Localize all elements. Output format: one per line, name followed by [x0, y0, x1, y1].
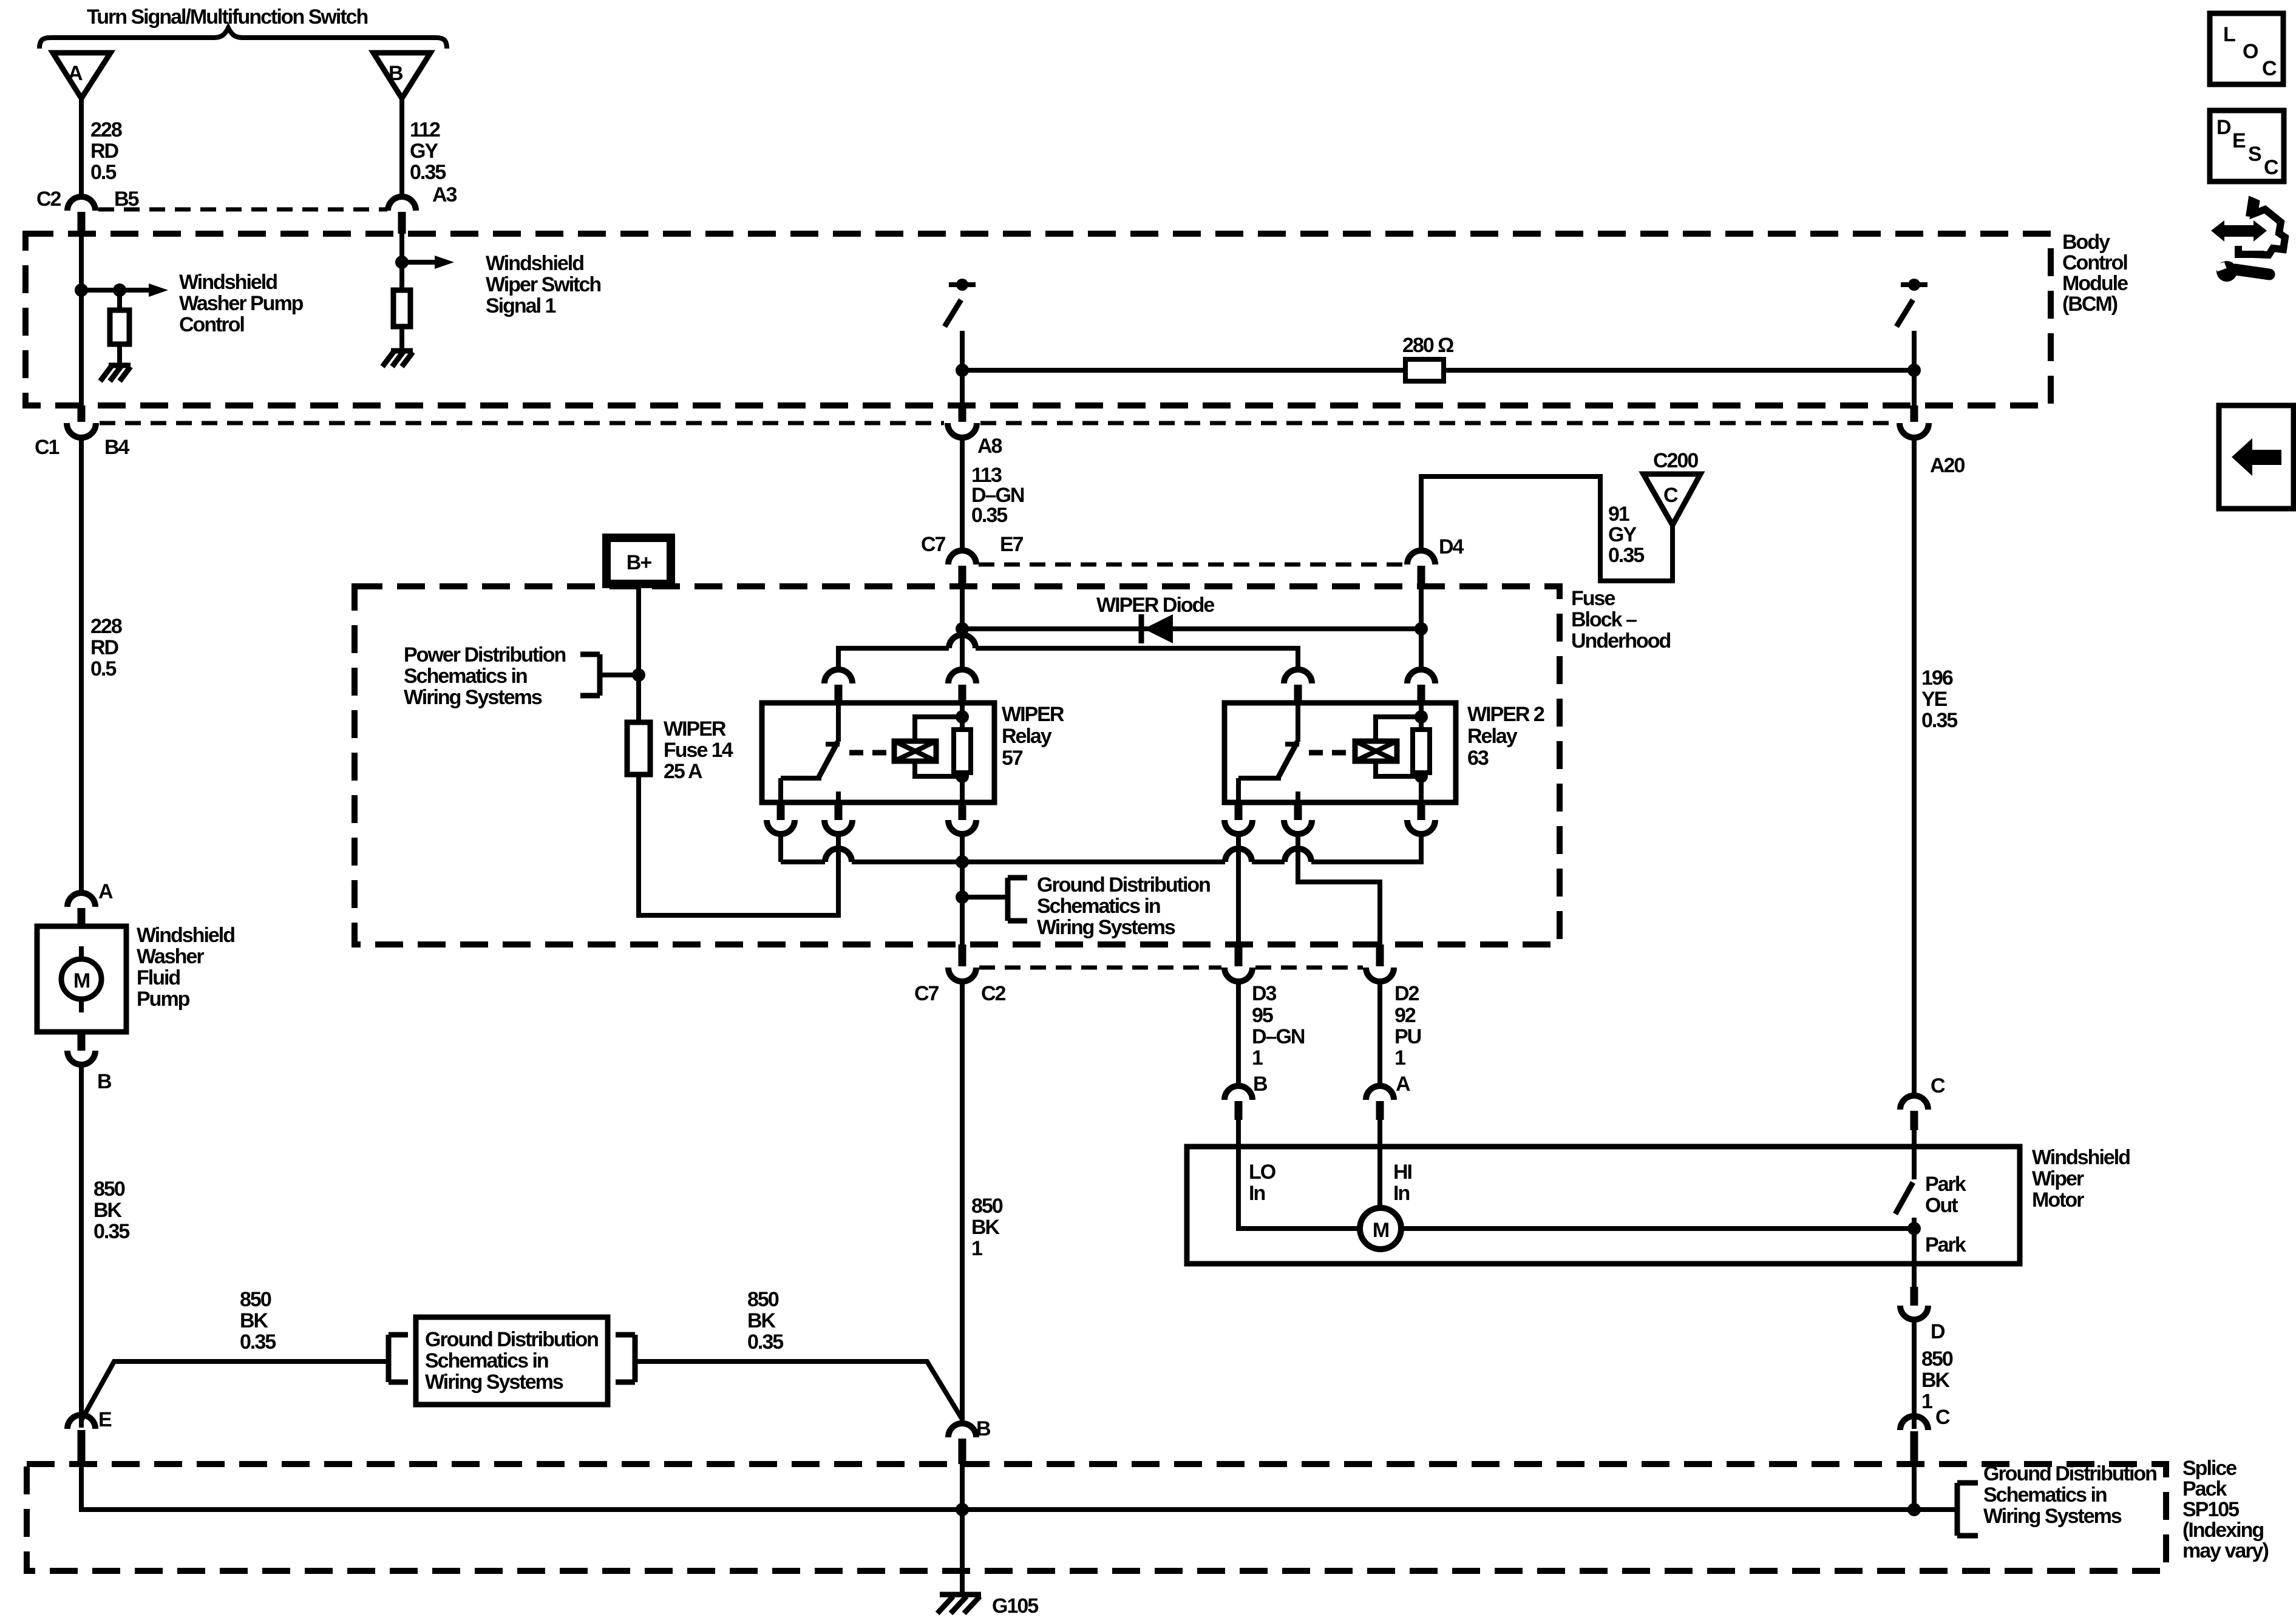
svg-text:C7: C7 — [914, 982, 939, 1005]
svg-text:(BCM): (BCM) — [2062, 293, 2118, 316]
svg-text:WIPER Diode: WIPER Diode — [1096, 594, 1214, 617]
svg-text:Windshield: Windshield — [137, 924, 234, 947]
svg-text:C: C — [1935, 1406, 1950, 1429]
svg-text:(Indexing: (Indexing — [2182, 1519, 2263, 1542]
svg-text:Ground Distribution: Ground Distribution — [1983, 1462, 2156, 1485]
svg-text:Wiper: Wiper — [2032, 1167, 2084, 1190]
svg-text:Power Distribution: Power Distribution — [404, 643, 565, 666]
svg-text:C: C — [1931, 1074, 1945, 1097]
svg-text:BK: BK — [93, 1199, 123, 1222]
svg-text:E: E — [98, 1408, 112, 1431]
svg-text:GY: GY — [410, 140, 438, 163]
svg-text:Windshield: Windshield — [179, 271, 277, 294]
svg-text:Park: Park — [1925, 1233, 1966, 1256]
svg-text:C: C — [1663, 484, 1678, 507]
svg-text:M: M — [1373, 1219, 1389, 1242]
svg-text:1: 1 — [971, 1237, 982, 1260]
svg-text:850: 850 — [93, 1178, 125, 1201]
svg-text:may vary): may vary) — [2182, 1539, 2268, 1562]
svg-text:BK: BK — [747, 1309, 776, 1332]
svg-text:Windshield: Windshield — [2032, 1146, 2130, 1169]
svg-text:RD: RD — [90, 140, 119, 163]
svg-text:D: D — [1931, 1320, 1945, 1343]
svg-text:A: A — [1396, 1073, 1410, 1096]
svg-text:SP105: SP105 — [2182, 1498, 2239, 1521]
svg-text:GY: GY — [1608, 523, 1637, 546]
svg-text:E7: E7 — [1000, 533, 1024, 556]
svg-text:Washer Pump: Washer Pump — [179, 292, 304, 315]
svg-text:95: 95 — [1252, 1004, 1273, 1027]
svg-text:Wiring Systems: Wiring Systems — [1983, 1505, 2122, 1528]
svg-text:Module: Module — [2062, 272, 2128, 295]
svg-text:0.35: 0.35 — [971, 504, 1007, 527]
svg-text:A: A — [98, 880, 113, 903]
svg-text:25 A: 25 A — [664, 760, 702, 783]
svg-text:D4: D4 — [1439, 535, 1464, 558]
svg-text:Windshield: Windshield — [486, 252, 583, 275]
svg-text:Underhood: Underhood — [1571, 629, 1671, 653]
svg-text:0.35: 0.35 — [1921, 709, 1957, 732]
svg-text:In: In — [1249, 1182, 1265, 1205]
svg-text:Relay: Relay — [1002, 725, 1052, 748]
svg-text:Wiring Systems: Wiring Systems — [1037, 916, 1175, 939]
svg-text:Park: Park — [1925, 1173, 1966, 1196]
svg-text:B4: B4 — [104, 436, 130, 459]
svg-text:BK: BK — [240, 1309, 269, 1332]
svg-text:Body: Body — [2062, 231, 2110, 254]
svg-text:B5: B5 — [114, 188, 139, 211]
svg-text:Wiring Systems: Wiring Systems — [425, 1371, 563, 1394]
svg-text:Pack: Pack — [2182, 1477, 2227, 1500]
svg-text:63: 63 — [1467, 747, 1489, 770]
svg-text:Ground Distribution: Ground Distribution — [1037, 873, 1210, 897]
svg-text:LO: LO — [1249, 1161, 1276, 1184]
svg-text:E: E — [2232, 129, 2246, 152]
svg-text:C2: C2 — [981, 982, 1006, 1005]
svg-text:PU: PU — [1394, 1025, 1421, 1048]
svg-text:S: S — [2248, 143, 2261, 166]
svg-text:M: M — [73, 969, 90, 992]
svg-text:A20: A20 — [1930, 454, 1965, 477]
svg-text:Signal 1: Signal 1 — [486, 294, 555, 317]
svg-text:Fuse: Fuse — [1571, 587, 1615, 610]
svg-text:228: 228 — [90, 615, 122, 638]
svg-text:C2: C2 — [36, 188, 61, 211]
svg-text:In: In — [1393, 1182, 1409, 1205]
svg-text:0.35: 0.35 — [93, 1220, 129, 1243]
svg-text:850: 850 — [240, 1288, 271, 1311]
svg-text:Control: Control — [2062, 251, 2127, 274]
svg-text:112: 112 — [410, 118, 440, 141]
svg-text:C200: C200 — [1653, 449, 1698, 472]
svg-text:0.5: 0.5 — [90, 657, 116, 680]
svg-text:Relay: Relay — [1467, 725, 1518, 748]
svg-text:Wiring Systems: Wiring Systems — [404, 686, 542, 709]
svg-text:57: 57 — [1002, 747, 1023, 770]
svg-text:RD: RD — [90, 636, 119, 659]
svg-text:Splice: Splice — [2182, 1457, 2237, 1480]
svg-text:Block –: Block – — [1571, 608, 1637, 631]
svg-text:Washer: Washer — [137, 945, 204, 968]
svg-text:1: 1 — [1394, 1046, 1405, 1070]
svg-text:Pump: Pump — [137, 988, 190, 1011]
svg-text:1: 1 — [1252, 1046, 1263, 1070]
svg-text:Wiper Switch: Wiper Switch — [486, 273, 600, 296]
svg-text:D: D — [2216, 116, 2231, 139]
svg-text:Motor: Motor — [2032, 1188, 2084, 1212]
svg-text:850: 850 — [971, 1195, 1003, 1218]
svg-text:WIPER 2: WIPER 2 — [1467, 703, 1544, 726]
svg-text:YE: YE — [1921, 688, 1948, 711]
svg-text:L: L — [2223, 23, 2235, 46]
svg-text:Schematics in: Schematics in — [404, 665, 527, 688]
svg-text:WIPER: WIPER — [664, 717, 726, 741]
svg-text:0.35: 0.35 — [240, 1331, 276, 1354]
svg-text:G105: G105 — [992, 1595, 1038, 1617]
svg-text:B: B — [389, 62, 403, 85]
svg-text:92: 92 — [1394, 1004, 1416, 1027]
svg-text:280 Ω: 280 Ω — [1402, 334, 1453, 357]
svg-text:C: C — [2264, 156, 2278, 179]
svg-text:C: C — [2262, 57, 2277, 80]
svg-text:HI: HI — [1393, 1161, 1412, 1184]
svg-text:A3: A3 — [432, 183, 457, 206]
svg-text:Schematics in: Schematics in — [1037, 895, 1160, 918]
svg-text:0.35: 0.35 — [1608, 544, 1644, 567]
svg-text:BK: BK — [971, 1216, 1000, 1239]
svg-text:BK: BK — [1921, 1369, 1951, 1392]
svg-text:91: 91 — [1608, 503, 1629, 526]
svg-text:850: 850 — [747, 1288, 779, 1311]
svg-text:0.5: 0.5 — [90, 161, 116, 184]
svg-text:1: 1 — [1921, 1390, 1932, 1413]
svg-text:D2: D2 — [1394, 982, 1419, 1005]
svg-text:Out: Out — [1925, 1194, 1958, 1217]
svg-text:B+: B+ — [627, 551, 652, 574]
svg-text:Schematics in: Schematics in — [1983, 1483, 2107, 1507]
svg-text:O: O — [2243, 40, 2258, 63]
svg-text:B: B — [976, 1417, 991, 1440]
svg-text:B: B — [97, 1070, 112, 1093]
svg-text:Fuse 14: Fuse 14 — [664, 739, 733, 762]
svg-text:228: 228 — [90, 118, 122, 141]
svg-text:A: A — [68, 62, 83, 85]
svg-text:C1: C1 — [35, 436, 59, 459]
svg-text:A8: A8 — [977, 435, 1002, 458]
svg-text:D–GN: D–GN — [1252, 1025, 1305, 1048]
svg-text:Schematics in: Schematics in — [425, 1349, 548, 1372]
svg-text:WIPER: WIPER — [1002, 703, 1064, 726]
svg-text:B: B — [1253, 1073, 1268, 1096]
svg-text:D3: D3 — [1252, 982, 1277, 1005]
svg-text:0.35: 0.35 — [410, 161, 446, 184]
svg-text:C7: C7 — [921, 533, 946, 556]
svg-text:Fluid: Fluid — [137, 966, 180, 989]
svg-text:196: 196 — [1921, 666, 1953, 690]
svg-text:Control: Control — [179, 313, 244, 336]
svg-text:850: 850 — [1921, 1347, 1953, 1371]
svg-text:0.35: 0.35 — [747, 1331, 783, 1354]
svg-text:Ground Distribution: Ground Distribution — [425, 1328, 598, 1351]
